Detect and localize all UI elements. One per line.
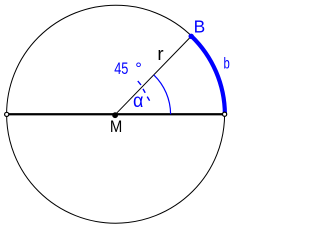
svg-text:°: ° [135, 60, 142, 78]
radius segment r from M to B [116, 36, 192, 114]
arc b (thick blue arc from B to right point) [191, 36, 225, 114]
svg-text:45: 45 [114, 60, 128, 78]
svg-text:B: B [194, 17, 206, 37]
dashed leader line for 45 degrees [138, 81, 141, 85]
circle k around M [7, 5, 225, 223]
svg-text:b: b [224, 56, 230, 73]
wire diameter line [7, 113, 225, 115]
node B point on circle [189, 34, 194, 39]
node left intersection point [5, 112, 9, 116]
node right intersection point [223, 112, 227, 116]
svg-text:α: α [133, 91, 143, 112]
angle arc alpha [154, 75, 171, 114]
svg-text:r: r [157, 44, 163, 64]
node M center point [112, 112, 118, 118]
svg-text:M: M [110, 118, 122, 136]
